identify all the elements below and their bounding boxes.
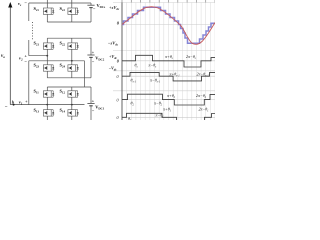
- svg-text:−: −: [24, 1, 27, 6]
- top rail cell 1: [47, 86, 91, 88]
- svg-text:−: −: [93, 6, 96, 11]
- svg-text:Ss3: Ss3: [34, 6, 40, 12]
- svg-text:VDCs: VDCs: [97, 3, 107, 9]
- svg-text:VDC1: VDC1: [95, 104, 105, 110]
- axis plot e: [122, 116, 215, 118]
- battery V_DCs: [90, 3, 92, 5]
- svg-text:0: 0: [117, 58, 120, 63]
- svg-text:S13: S13: [34, 108, 40, 114]
- svg-text:−: −: [24, 59, 27, 64]
- svg-text:0: 0: [117, 21, 120, 26]
- terminal wire v2 plus: [29, 55, 48, 57]
- transistor S_s3: [43, 8, 54, 14]
- svg-text:2π−θ1: 2π−θ1: [199, 107, 210, 113]
- svg-text:vo: vo: [1, 54, 5, 59]
- node b dot: [13, 104, 15, 106]
- node v1 plus left: [46, 104, 48, 106]
- mid leg stubs cell 2: [46, 49, 48, 65]
- node v2 minus: [71, 60, 73, 62]
- transistor S_12: [68, 91, 79, 97]
- source stubs (cut at bottom): [46, 116, 48, 120]
- transistor S_21: [43, 43, 54, 49]
- svg-text:π+θs: π+θs: [165, 54, 173, 60]
- svg-text:+: +: [92, 98, 95, 103]
- svg-text:+: +: [92, 50, 95, 55]
- svg-text:VDC2: VDC2: [95, 56, 105, 62]
- svg-text:0: 0: [117, 74, 120, 79]
- square wave v_1: [122, 113, 177, 120]
- axis plot a horizontal: [122, 24, 215, 26]
- chain dotted continuation: [32, 22, 34, 40]
- transistor S_s4: [68, 8, 79, 14]
- svg-text:Ss4: Ss4: [60, 6, 66, 12]
- staircase waveform (blue): [122, 7, 215, 43]
- transistor S_24: [68, 65, 79, 71]
- axis plot c: [122, 75, 215, 77]
- transistor S_22: [68, 43, 79, 49]
- subplot separators: [113, 50, 215, 52]
- svg-text:−: −: [92, 60, 95, 65]
- battery V_DC1: [90, 87, 92, 103]
- svg-text:π−θ1: π−θ1: [156, 113, 165, 119]
- svg-text:v2: v2: [19, 55, 23, 61]
- svg-text:S11: S11: [34, 89, 40, 95]
- svg-text:b: b: [12, 99, 15, 104]
- bottom rail cell 2: [46, 71, 48, 78]
- mid leg stubs cell 1: [46, 97, 48, 110]
- transistor S_23: [43, 65, 54, 71]
- transistor S_11: [43, 91, 54, 97]
- battery V_DC2: [90, 38, 92, 55]
- node v1 plus right: [71, 104, 73, 106]
- svg-text:S22: S22: [60, 41, 66, 47]
- leg stubs: [46, 87, 48, 91]
- transistor S_13: [43, 110, 54, 116]
- right leg upper stub (cut): [71, 0, 73, 8]
- svg-text:−: −: [5, 105, 8, 110]
- sine reference (red): [122, 7, 215, 45]
- grid vertical lines: [122, 3, 215, 121]
- svg-text:θs: θs: [135, 62, 138, 68]
- terminal wire v2 minus: [29, 60, 85, 62]
- wire node b (v1 minus): [10, 104, 84, 106]
- svg-text:−Vdc: −Vdc: [109, 65, 118, 71]
- node v2 plus: [46, 55, 48, 57]
- axis plot d: [122, 99, 215, 101]
- svg-text:S21: S21: [34, 41, 40, 47]
- svg-text:+: +: [25, 99, 28, 104]
- svg-text:S12: S12: [60, 89, 66, 95]
- axis vertical all plots: [121, 3, 123, 121]
- svg-text:+sVdc: +sVdc: [109, 5, 120, 11]
- svg-text:S23: S23: [34, 62, 40, 68]
- bottom rail cell s: [47, 21, 91, 23]
- svg-text:0: 0: [117, 115, 120, 120]
- svg-text:π+θ1: π+θ1: [163, 107, 172, 113]
- svg-text:vs: vs: [18, 1, 22, 7]
- top rail cell 2: [47, 37, 91, 39]
- svg-text:S14: S14: [60, 108, 66, 114]
- chain wire cell2 minus to cell1 plus: [28, 61, 30, 105]
- square wave v_s: [122, 55, 215, 67]
- axis plot b: [122, 60, 215, 62]
- source stubs to bottom rail: [46, 14, 48, 22]
- square wave v_2: [122, 94, 215, 105]
- svg-text:2π−θs: 2π−θs: [186, 54, 196, 60]
- terminal wire v_s: [29, 2, 91, 4]
- transistor S_14: [68, 110, 79, 116]
- top ticks: [122, 0, 215, 3]
- svg-text:0: 0: [117, 98, 120, 103]
- left leg upper stub (cut): [46, 0, 48, 8]
- svg-text:+: +: [24, 54, 27, 59]
- chain wire upper solid: [28, 3, 30, 21]
- leg stubs: [46, 38, 48, 43]
- svg-text:S24: S24: [60, 62, 66, 68]
- svg-text:π−θ2: π−θ2: [154, 100, 163, 106]
- inter-cell wire v2 minus down to cell1: [84, 61, 86, 87]
- output voltage arrow v_o: [8, 2, 12, 105]
- svg-text:−: −: [92, 109, 95, 114]
- chain wire to cell2 plus: [28, 40, 30, 56]
- plot top border: [113, 2, 215, 4]
- svg-text:−sVdc: −sVdc: [108, 40, 119, 46]
- square wave v_s-1: [122, 72, 215, 81]
